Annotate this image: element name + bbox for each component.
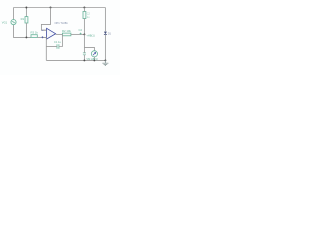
ground xyxy=(102,60,108,65)
wire R5 upper xyxy=(83,8,85,12)
wire R1 vertical lower xyxy=(25,23,27,37)
voltmeter VM1 xyxy=(91,51,97,57)
capacitor C3 xyxy=(83,53,86,55)
svg-text:VG1: VG1 xyxy=(2,21,8,25)
junction dot output node xyxy=(83,33,85,35)
wire bottom rail xyxy=(46,59,105,61)
junction dot VM ground xyxy=(93,59,95,61)
wire left vertical upper xyxy=(13,8,15,20)
wire feedback drop xyxy=(41,8,50,31)
wire C3 lower xyxy=(83,55,85,61)
svg-text:C1 1u: C1 1u xyxy=(54,40,61,44)
wire R3 to opamp xyxy=(37,36,46,38)
svg-text:R1: R1 xyxy=(21,17,25,21)
wire right branch upper xyxy=(104,8,106,32)
junction dot top-left rail xyxy=(25,7,27,9)
wire R2 to output node xyxy=(71,33,85,35)
wire C1 left xyxy=(46,46,57,48)
wire VM lower xyxy=(93,57,95,60)
svg-text:C2: C2 xyxy=(79,28,83,32)
svg-text:+HB(1): +HB(1) xyxy=(86,34,94,38)
wire C1 right up to output xyxy=(59,34,63,46)
junction dot feedback rail xyxy=(50,7,52,9)
junction dot input node xyxy=(25,36,27,38)
wire opamp output xyxy=(56,33,63,35)
op-amp OP1 xyxy=(41,28,55,39)
resistor R5 xyxy=(83,12,86,19)
wire left vertical lower xyxy=(14,25,32,38)
svg-text:R2 10k: R2 10k xyxy=(62,29,71,33)
junction dot ground node xyxy=(104,59,106,61)
wire output to VM xyxy=(84,34,94,50)
diode D1 xyxy=(104,32,107,35)
wire right branch lower xyxy=(104,35,106,61)
resistor R1 xyxy=(25,17,28,23)
source VG1 xyxy=(11,20,16,25)
svg-text:D1: D1 xyxy=(108,31,112,35)
wire noninverting down xyxy=(45,37,47,60)
wire top rail xyxy=(14,7,106,9)
svg-text:R3 1k: R3 1k xyxy=(31,30,39,34)
svg-text:VM HB(1): VM HB(1) xyxy=(86,57,98,61)
junction dot C3 ground xyxy=(83,59,85,61)
junction dot cap rail xyxy=(83,7,85,9)
resistor R2 xyxy=(62,33,71,36)
wire C3 upper xyxy=(83,47,85,53)
svg-text:OP1 TL081: OP1 TL081 xyxy=(55,21,69,25)
wire R1 vertical upper xyxy=(25,8,27,17)
wire R5 lower to output node xyxy=(83,19,85,35)
capacitor C1 xyxy=(57,44,59,48)
resistor R3 xyxy=(31,35,37,38)
